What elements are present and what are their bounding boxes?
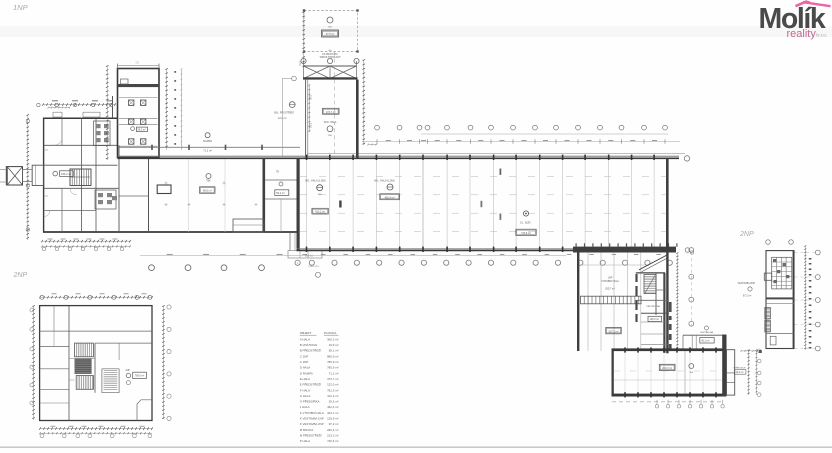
svg-text:2NP: 2NP	[126, 370, 131, 372]
svg-text:1NP: 1NP	[13, 3, 28, 12]
c2 elevator dark	[75, 359, 92, 374]
fixture cluster bottom (toilets)	[95, 190, 116, 209]
svg-text:136,8 m²: 136,8 m²	[650, 318, 660, 321]
svg-text:VYROBNI HALA: VYROBNI HALA	[601, 280, 619, 283]
funnel connector	[23, 170, 33, 182]
svg-text:122,0 m²: 122,0 m²	[327, 383, 338, 387]
svg-text:TBK: TBK	[206, 181, 211, 183]
svg-text:K VÝROBNÍ HALA: K VÝROBNÍ HALA	[300, 411, 324, 415]
c2 stairs top	[75, 343, 94, 357]
svg-text:785,9 m²: 785,9 m²	[327, 366, 338, 370]
hall column ticks bottom edge	[306, 247, 308, 252]
stair arrow	[71, 176, 91, 178]
svg-text:D RAMPA: D RAMPA	[300, 371, 313, 375]
room label circle 1NP	[53, 171, 58, 176]
nplan right circles	[815, 250, 820, 255]
svg-text:F HALA: F HALA	[300, 388, 310, 392]
svg-text:412,2 m²: 412,2 m²	[327, 394, 338, 398]
m-hall right chain circles	[757, 349, 761, 353]
svg-text:K VESTAVBA 1NP: K VESTAVBA 1NP	[300, 417, 324, 421]
left building door marks	[44, 149, 48, 151]
nplan left protrusion	[764, 273, 771, 280]
hall label cluster B box 462.4	[380, 194, 400, 200]
stair tower partitions	[656, 289, 669, 291]
m-hall column ticks	[624, 347, 626, 352]
c2 stairs bottom	[76, 376, 93, 390]
grid circle row top	[375, 125, 380, 130]
entrance vestibule	[32, 165, 43, 185]
svg-text:2NP: 2NP	[739, 231, 754, 238]
machine room left chain	[106, 66, 108, 160]
dimension line below hall	[140, 254, 566, 256]
door arc room3	[70, 188, 77, 195]
m-hall below dashed line	[612, 401, 724, 403]
middle hall light verticals	[188, 158, 190, 232]
nplan outline	[766, 251, 794, 349]
hall interior horizontal dashed lines	[300, 175, 672, 177]
machine room label circle	[131, 127, 135, 131]
staircase main	[70, 169, 91, 186]
c2 top chain	[40, 296, 152, 298]
svg-text:373,7 m²: 373,7 m²	[327, 377, 338, 381]
svg-text:213,2 m²: 213,2 m²	[327, 433, 338, 437]
nplan hatch block B	[765, 320, 771, 332]
nplan bathroom block	[772, 257, 792, 289]
svg-text:97,2 m²: 97,2 m²	[329, 422, 339, 426]
svg-text:507,3 m²: 507,3 m²	[609, 330, 619, 333]
door arc room1	[55, 138, 62, 145]
tower circle lower	[327, 126, 333, 132]
svg-text:781,3 m²: 781,3 m²	[327, 388, 338, 392]
svg-text:VESTAVBA 2NP: VESTAVBA 2NP	[738, 282, 756, 285]
svg-text:4%: 4%	[328, 50, 331, 52]
svg-text:PLOCHA: PLOCHA	[324, 331, 336, 335]
k-building top band	[573, 247, 676, 253]
nplan walls	[766, 297, 794, 299]
stair tower top edge	[636, 272, 665, 274]
svg-text:3000: 3000	[311, 122, 313, 128]
hall top outer line	[118, 155, 680, 157]
box 136.8	[648, 316, 662, 321]
staircase k	[644, 275, 656, 294]
m-hall circle	[689, 364, 694, 369]
hall centerline columns	[339, 201, 341, 208]
partition vertical v5	[61, 188, 63, 232]
svg-text:173,7 m²: 173,7 m²	[326, 111, 336, 114]
svg-text:260,4 m²: 260,4 m²	[327, 428, 338, 432]
box 40.1	[700, 338, 714, 343]
right rooms partitions	[265, 179, 296, 181]
projection line left of tower	[282, 78, 284, 157]
corner wall segment	[112, 96, 114, 118]
nplan right chain dark pairs	[809, 258, 812, 260]
m-hall box 260.3	[659, 364, 675, 370]
k-building band end circles	[685, 248, 690, 253]
partition row4	[44, 210, 96, 212]
svg-text:B PŘEDSTŘEŠÍ: B PŘEDSTŘEŠÍ	[300, 348, 321, 353]
c2 small stripe room	[104, 370, 118, 372]
hall column ticks top edge	[306, 155, 308, 160]
svg-text:K VESTAVBA 2NP: K VESTAVBA 2NP	[300, 422, 324, 426]
dimension dash row below top circles	[362, 141, 680, 143]
svg-text:27,5 m²: 27,5 m²	[326, 33, 335, 36]
hall bottom wall	[297, 249, 575, 251]
hall top wall	[118, 157, 680, 159]
svg-text:2NP: 2NP	[13, 272, 28, 279]
tbk column cross marks	[165, 204, 168, 206]
tower inner left ticks	[308, 85, 310, 132]
machine room right chains	[166, 69, 168, 150]
wall left-building bottom edge	[43, 231, 297, 233]
svg-text:50,6 m²: 50,6 m²	[329, 400, 339, 404]
svg-text:462,4 m²: 462,4 m²	[385, 196, 395, 199]
svg-text:P HALA: P HALA	[300, 439, 310, 443]
partition row1 left building	[44, 144, 118, 146]
tower left label cluster	[289, 102, 295, 108]
tower centerline dashed	[334, 52, 336, 159]
svg-text:740,6 m²: 740,6 m²	[521, 232, 531, 235]
c2 corner detail	[137, 400, 152, 421]
hall label cluster C box 740.6	[516, 229, 536, 235]
rampa column ticks	[151, 145, 153, 150]
svg-text:23,9 m²: 23,9 m²	[329, 343, 339, 347]
svg-text:RAMPA: RAMPA	[203, 140, 212, 143]
svg-text:462,4 m²: 462,4 m²	[327, 405, 338, 409]
bottom gray line	[0, 446, 832, 448]
hall thin line above top	[308, 153, 685, 155]
scan band	[0, 26, 832, 37]
c2 right chain	[162, 306, 164, 419]
svg-text:56,3 m²: 56,3 m²	[138, 129, 146, 132]
machine room dark band	[118, 84, 160, 87]
tower label box 173.7	[323, 108, 340, 114]
svg-text:886,9 m²: 886,9 m²	[327, 354, 338, 358]
logo roof chevron	[796, 2, 810, 7]
partition vertical v4	[118, 145, 120, 232]
svg-text:TB: TB	[276, 172, 279, 174]
m-hall interior lines	[684, 351, 686, 394]
svg-text:15,0: 15,0	[299, 61, 302, 66]
grid bubbles left section	[149, 265, 155, 271]
nplan hatch block A	[765, 308, 771, 320]
svg-text:VESTŘELNA: VESTŘELNA	[700, 331, 714, 334]
machine room top dim line	[118, 65, 160, 67]
c2 inner partitions	[40, 330, 152, 332]
chain far-left vertical	[27, 115, 29, 240]
machine squares	[129, 100, 134, 105]
chain top of left building	[43, 104, 115, 106]
fixture cluster top (toilets)	[94, 121, 111, 146]
entrance funnel marker	[7, 167, 22, 185]
m-hall left wall	[612, 351, 614, 396]
hall circle top right end	[684, 156, 689, 161]
m-hall below circles	[655, 405, 658, 408]
k right grid circles	[689, 248, 694, 253]
nplan connector dashes	[795, 252, 816, 254]
rampa label circle	[205, 133, 210, 138]
partition row3	[44, 187, 119, 189]
k-building hatch band	[581, 296, 642, 304]
m-hall right annex	[727, 350, 735, 395]
machine room label box	[137, 127, 148, 131]
svg-text:OBJEKT: OBJEKT	[300, 331, 312, 335]
svg-text:23,4 m²: 23,4 m²	[736, 371, 744, 374]
hall interior vertical grid lines	[306, 158, 308, 250]
svg-text:G HALA: G HALA	[300, 394, 311, 398]
m-hall top wall	[612, 348, 725, 351]
svg-text:OŠETŘOVNA: OŠETŘOVNA	[646, 305, 660, 308]
chain far-left circles	[26, 119, 29, 122]
partition vertical v2	[81, 118, 83, 232]
hall label cluster C circle	[523, 211, 528, 216]
svg-text:97,2 m²: 97,2 m²	[743, 294, 752, 297]
corner step boxes	[53, 112, 62, 117]
room 40.1	[683, 334, 723, 336]
svg-text:G PŘEDSÍŇKA: G PŘEDSÍŇKA	[300, 399, 320, 404]
partition vertical v3	[95, 118, 97, 232]
m-hall top-right marks	[741, 350, 760, 352]
svg-text:E PŘEDSTŘEŠÍ: E PŘEDSTŘEŠÍ	[300, 382, 321, 387]
hall right wall	[666, 158, 669, 250]
tower left dim chain	[303, 12, 305, 68]
m-hall right chains	[748, 350, 750, 395]
tbk square opening	[157, 185, 171, 194]
machine room door notch	[121, 79, 129, 84]
stair tower inner walls	[655, 273, 657, 315]
tower left wall	[305, 80, 307, 158]
rampa top line	[119, 146, 300, 148]
c2 bottom chains	[40, 428, 152, 430]
partition row2 corridor	[44, 164, 118, 166]
svg-text:C 1NP: C 1NP	[300, 354, 309, 358]
svg-text:(9,0 m): (9,0 m)	[305, 255, 313, 258]
nplan bottom-left tick	[759, 350, 762, 353]
svg-text:B VRÁTNICE: B VRÁTNICE	[300, 343, 317, 347]
hall left wall	[297, 158, 300, 251]
wall left-building left	[43, 118, 45, 233]
svg-text:98,5 m²: 98,5 m²	[203, 189, 212, 193]
partition y196 rooms 119-148	[119, 195, 149, 197]
legend table	[300, 331, 339, 443]
machine room inner lines	[119, 97, 158, 99]
svg-text:reality: reality	[787, 28, 817, 40]
k tower right wall	[666, 158, 668, 353]
nplan small rect	[770, 336, 776, 345]
svg-text:71,2 m²: 71,2 m²	[329, 371, 339, 375]
m-hall right column strip	[722, 335, 726, 397]
tower upper box 27.5	[322, 30, 339, 37]
c2 outline	[40, 306, 152, 421]
m-hall interior verticals	[624, 351, 626, 394]
vestrelna label	[705, 326, 709, 330]
tower truss bottom chord	[303, 77, 358, 79]
k right dim chain	[676, 253, 678, 350]
svg-text:59,2 m²: 59,2 m²	[276, 192, 285, 195]
svg-text:825,7 m²: 825,7 m²	[605, 288, 615, 291]
small boxes below hall left end	[288, 251, 322, 259]
svg-text:785,9 m²: 785,9 m²	[327, 360, 338, 364]
tbk label box	[200, 187, 216, 194]
door arc room4	[44, 211, 50, 217]
svg-text:M BOUDA: M BOUDA	[300, 428, 314, 432]
tower upper circle	[327, 17, 333, 23]
tower upper room dashed outline	[304, 11, 358, 52]
tower upper corner ticks	[303, 9, 305, 11]
svg-text:E HALA: E HALA	[300, 377, 310, 381]
room divider x148	[148, 158, 150, 232]
room label box 186.3	[60, 171, 74, 177]
chain top circles	[37, 103, 40, 106]
svg-text:85,1 m²: 85,1 m²	[329, 349, 339, 353]
svg-text:129,9 m²: 129,9 m²	[327, 417, 338, 421]
svg-text:186,3 m²: 186,3 m²	[61, 172, 71, 176]
grid circle row bottom	[295, 260, 300, 265]
wall divider x263	[263, 158, 266, 232]
k-building box 507.3	[606, 327, 621, 333]
stair tower left wall segments	[635, 274, 637, 282]
svg-text:740,6 m²: 740,6 m²	[327, 439, 338, 443]
room label box 59.2	[275, 190, 289, 196]
svg-text:323,1 m²: 323,1 m²	[327, 411, 338, 415]
left building bottom chains	[42, 240, 130, 242]
svg-text:SKL. PROSTŘEDÍ: SKL. PROSTŘEDÍ	[274, 112, 294, 115]
nplan right chain	[804, 246, 806, 350]
k-building tick row above band	[576, 243, 577, 247]
svg-text:/s.r.o.: /s.r.o.	[816, 33, 827, 38]
tower truss grid circles	[301, 58, 306, 63]
ramp diagonal	[639, 254, 669, 270]
svg-text:785,9 m²: 785,9 m²	[135, 375, 145, 378]
svg-text:J HALA: J HALA	[300, 405, 310, 409]
k-building left room vertical lines	[587, 253, 589, 352]
svg-text:40,1 m²: 40,1 m²	[701, 340, 709, 343]
hall label cluster A box 410.2	[312, 208, 328, 214]
tower right dim chain	[363, 60, 365, 145]
svg-text:1NP: 1NP	[608, 276, 613, 279]
tbk label circle	[206, 174, 211, 179]
svg-text:C 2NP: C 2NP	[300, 360, 309, 364]
svg-text:5.1. SLÉV: 5.1. SLÉV	[520, 221, 531, 224]
k-building left wall	[577, 249, 579, 351]
svg-text:M PŘEDSTŘEŠÍ: M PŘEDSTŘEŠÍ	[300, 432, 322, 437]
nplan right wall thick	[793, 251, 795, 349]
svg-text:STŘELNICE: STŘELNICE	[733, 366, 746, 369]
funnel edge lines	[0, 169, 7, 171]
svg-text:A HALA: A HALA	[300, 337, 310, 341]
k-building left room horizontal line	[579, 264, 645, 266]
svg-text:410,2 m²: 410,2 m²	[315, 211, 325, 214]
svg-text:SKL. HALA (1,5M): SKL. HALA (1,5M)	[305, 180, 326, 183]
svg-text:360,3 m²: 360,3 m²	[327, 337, 338, 341]
machine room outer walls	[118, 69, 160, 158]
svg-text:SKL. HALA (1,5M): SKL. HALA (1,5M)	[374, 180, 395, 183]
step structure below middle hall	[289, 232, 291, 251]
svg-text:PRŮZORY: PRŮZORY	[309, 265, 320, 268]
dimension numbers left section	[167, 253, 173, 255]
hall label cluster A circle	[317, 185, 323, 191]
svg-text:3000: 3000	[311, 94, 313, 100]
svg-text:D HALA: D HALA	[300, 366, 311, 370]
c2 left chain	[33, 306, 35, 420]
dim marks right of tower bottom	[368, 144, 377, 146]
m-hall bottom wall	[612, 394, 725, 397]
chain second row top	[48, 107, 70, 109]
partition vertical v1	[61, 118, 63, 145]
tower truss	[304, 65, 357, 67]
wall left-building top edge	[43, 117, 118, 119]
svg-text:71,2 m²: 71,2 m²	[203, 148, 212, 152]
dark wall marks right of tower	[669, 302, 672, 312]
hall thin line y134	[421, 133, 668, 135]
svg-text:SKO. HALA: SKO. HALA	[324, 121, 337, 124]
nplan grid circles top	[766, 240, 771, 245]
svg-text:260,3 m²: 260,3 m²	[662, 367, 672, 370]
hall label cluster B circle	[387, 184, 393, 190]
tower right wall	[356, 80, 359, 158]
